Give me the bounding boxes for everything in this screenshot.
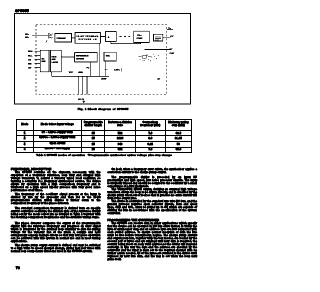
right column paragraph D bbox=[107, 200, 197, 215]
svg-text:AND: AND bbox=[52, 58, 57, 61]
page number bbox=[16, 265, 20, 270]
table caption note bbox=[36, 154, 177, 157]
svg-text:DATA: DATA bbox=[52, 55, 58, 58]
table: modes of operation bbox=[16, 119, 192, 153]
block crystal oscillator bbox=[104, 52, 116, 61]
block phase comparator bbox=[134, 31, 150, 42]
svg-text:0V 5V: 0V 5V bbox=[78, 99, 84, 101]
supply pin wires bbox=[78, 76, 87, 94]
svg-text:SDA: SDA bbox=[28, 50, 33, 53]
wire crystal out bbox=[144, 48, 171, 50]
svg-text:AS: AS bbox=[28, 58, 32, 61]
right column paragraph A bbox=[107, 168, 197, 174]
wire prescaler to phase comp bbox=[111, 41, 141, 43]
left column paragraph 4 bbox=[11, 222, 101, 243]
right column paragraph C bbox=[107, 188, 197, 200]
block preamplifier bbox=[55, 34, 72, 43]
wire RF input bbox=[32, 35, 48, 37]
wire ref divider down bbox=[90, 62, 92, 77]
wires bus pins bbox=[35, 51, 41, 67]
svg-text:MS: MS bbox=[28, 63, 32, 65]
ground symbol bbox=[82, 101, 85, 103]
wire top right bbox=[167, 29, 173, 31]
wire preamp to divider bbox=[72, 37, 76, 39]
svg-text:PH.×: PH.× bbox=[137, 34, 142, 37]
block reference divider bbox=[75, 53, 98, 62]
crystal X1 bbox=[139, 56, 152, 58]
left column paragraph 2 bbox=[11, 193, 101, 205]
block 15-bit programmable divider bbox=[75, 33, 100, 44]
IC boundary dashed box bbox=[36, 25, 167, 95]
svg-text:CP: CP bbox=[170, 36, 174, 38]
header: device name SP5055 bbox=[15, 9, 29, 13]
svg-text:RF:: RF: bbox=[25, 37, 29, 39]
svg-text:PREAMP.: PREAMP. bbox=[56, 37, 66, 40]
left column paragraph 3 bbox=[11, 207, 101, 219]
svg-text:DIVIDER ÷N: DIVIDER ÷N bbox=[79, 38, 98, 41]
block bus interface bbox=[40, 50, 49, 72]
svg-text:OSC: OSC bbox=[106, 55, 111, 57]
svg-text:COMP: COMP bbox=[137, 38, 144, 40]
wire latch to ref divider bbox=[61, 56, 74, 58]
left column paragraph 5 bbox=[11, 244, 101, 253]
svg-text:BUS: BUS bbox=[41, 61, 46, 63]
svg-text:CAP: CAP bbox=[170, 52, 175, 55]
wire osc stub bbox=[105, 61, 108, 76]
wire bottom rail bbox=[52, 75, 109, 77]
wire divider to prescaler bbox=[100, 36, 105, 38]
svg-text:XT: XT bbox=[170, 49, 173, 51]
figure frame bbox=[15, 14, 191, 104]
block diagram figure bbox=[0, 0, 207, 292]
left column heading bbox=[11, 167, 51, 171]
wire marks to phase comparator bbox=[120, 36, 131, 38]
svg-text:SCL: SCL bbox=[28, 55, 33, 57]
right column paragraph B bbox=[107, 176, 197, 188]
right column paragraph E bbox=[107, 222, 197, 261]
svg-text:GND: GND bbox=[78, 72, 83, 74]
svg-text:15-BIT PROGRAM.: 15-BIT PROGRAM. bbox=[76, 35, 99, 38]
figure caption bbox=[78, 107, 129, 111]
svg-text:LATCH: LATCH bbox=[52, 61, 59, 64]
svg-text:DIVIDER: DIVIDER bbox=[76, 59, 85, 61]
svg-text:÷: ÷ bbox=[108, 36, 110, 40]
svg-text:4 MHz: 4 MHz bbox=[114, 69, 120, 72]
block data latch bbox=[50, 50, 61, 72]
right column heading bbox=[107, 218, 159, 222]
wire charge pump output bbox=[163, 37, 171, 39]
wire node box2 to rail bbox=[98, 43, 100, 76]
svg-text:I2C: I2C bbox=[41, 58, 45, 60]
left column paragraph 1 bbox=[11, 171, 101, 192]
svg-text:REFERENCE: REFERENCE bbox=[76, 56, 89, 58]
svg-text:VCC: VCC bbox=[69, 72, 74, 74]
svg-text:FC: FC bbox=[87, 68, 90, 70]
svg-text:AD: AD bbox=[28, 66, 32, 69]
svg-text:RF:: RF: bbox=[25, 34, 29, 36]
mark bottom right of IC bbox=[158, 78, 161, 79]
transistor Q1 input stage bbox=[46, 33, 52, 42]
svg-text:COMP: COMP bbox=[101, 78, 107, 80]
wire latch down bbox=[51, 72, 53, 77]
block comparison divider bbox=[105, 32, 116, 42]
block charge pump bbox=[154, 34, 163, 41]
